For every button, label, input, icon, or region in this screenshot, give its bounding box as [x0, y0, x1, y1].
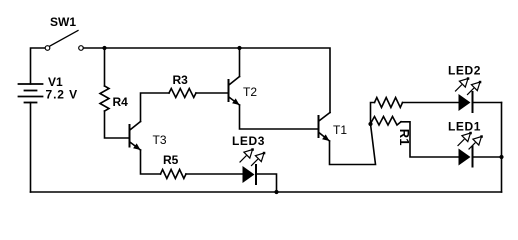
- junction dot node C: [368, 122, 372, 126]
- resistor R2 (unlabeled): [375, 98, 403, 108]
- svg-text:R5: R5: [163, 153, 179, 167]
- svg-text:R3: R3: [173, 73, 189, 87]
- svg-text:7.2 V: 7.2 V: [46, 88, 79, 102]
- wire top rail junction B to T1 collector: [240, 48, 331, 113]
- battery V1: [19, 84, 43, 103]
- wire right rail LED1 junction to bottom rail: [501, 157, 503, 192]
- transistor T2: [229, 77, 240, 106]
- resistor R1: [371, 117, 402, 126]
- junction dot B top rail at T2 collector: [237, 46, 241, 50]
- switch SW1: [45, 31, 83, 51]
- wire right rail LED2 to LED1 junction: [501, 103, 503, 158]
- wire R5 to LED3 anode: [186, 173, 243, 175]
- svg-text:LED1: LED1: [448, 120, 481, 134]
- svg-text:T2: T2: [243, 85, 257, 99]
- LED LED3: [240, 148, 265, 184]
- wire battery positive to switch SW1: [31, 48, 46, 84]
- wire R3 to T2 base: [196, 92, 228, 94]
- wire LED3 cathode to bottom rail: [256, 174, 277, 192]
- wire R2 to LED2 anode: [403, 102, 459, 104]
- wire T1 emitter to node C: [330, 124, 376, 165]
- svg-text:SW1: SW1: [50, 15, 76, 29]
- LED LED1: [458, 132, 483, 167]
- wire bottom rail LED3 junction to right rail: [277, 191, 502, 193]
- wire T3 emitter to R5: [141, 150, 161, 174]
- svg-text:LED3: LED3: [232, 134, 265, 148]
- resistor R4: [100, 86, 109, 111]
- wire node C to resistor R2: [371, 103, 375, 125]
- resistor R5: [161, 170, 187, 179]
- resistor R3: [169, 89, 196, 98]
- wire R1 to LED1 anode: [401, 122, 459, 157]
- svg-text:T3: T3: [153, 133, 167, 147]
- wire LED2 cathode to right rail: [473, 102, 502, 104]
- wire R4 top lead: [104, 48, 106, 86]
- svg-text:LED2: LED2: [448, 64, 481, 78]
- wire battery negative to bottom rail: [30, 103, 32, 193]
- wire T2 collector to top rail junction B: [239, 48, 241, 77]
- junction dot bottom rail at LED3: [274, 190, 278, 194]
- svg-text:T1: T1: [333, 123, 347, 137]
- transistor T3: [130, 122, 141, 151]
- wire LED1 cathode to right rail junction D: [473, 156, 502, 158]
- junction dot D right rail at LED1: [499, 155, 503, 159]
- LED LED2: [456, 77, 482, 112]
- transistor T1: [319, 113, 331, 142]
- wire bottom rail battery to LED3 junction: [31, 191, 277, 193]
- junction dot A top rail at R4: [102, 46, 106, 50]
- wire T2 emitter to T1 base: [240, 105, 318, 129]
- wire SW1 to top rail junction A: [83, 47, 104, 49]
- svg-text:R4: R4: [113, 95, 129, 109]
- wire R4 to T3 base: [105, 111, 129, 138]
- wire top rail junction A to junction B: [105, 47, 240, 49]
- wire T3 collector to R3 left lead: [141, 93, 170, 122]
